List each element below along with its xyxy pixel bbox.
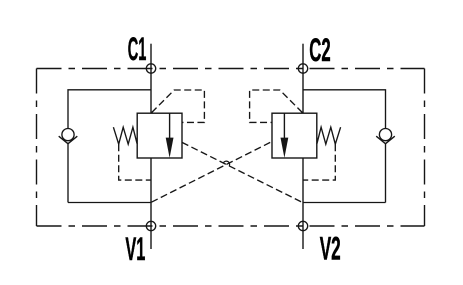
spring pilot drain of CB1 (dashed): [119, 144, 151, 180]
spring pilot drain of CB2 (dashed): [303, 144, 335, 180]
check valve CV1: [59, 129, 78, 144]
port C2: [298, 64, 307, 73]
svg-text:C2: C2: [309, 32, 330, 68]
svg-text:V1: V1: [125, 231, 145, 267]
port V1: [146, 221, 155, 230]
envelope (dashed enclosure boundary): [37, 69, 425, 227]
svg-text:C1: C1: [128, 31, 147, 67]
cross pilot line CB2-to-V1 (dashed diagonal): [151, 142, 270, 202]
check valve bypass loop CV2 wires: [303, 90, 386, 203]
spring of CB2: [317, 127, 341, 144]
counterbalance valve CB2 body: [272, 113, 317, 158]
wire V2 drop: [302, 158, 304, 249]
wire C1 riser: [150, 44, 152, 114]
check valve CV2: [376, 129, 395, 144]
cross pilot line CB1-to-V2 (dashed diagonal): [182, 142, 303, 202]
pilot loop of CB1 (dashed): [152, 90, 205, 122]
wire C2 riser: [302, 44, 304, 114]
spring of CB1: [113, 127, 137, 144]
check valve bypass loop CV1 wires: [68, 90, 151, 203]
valve CB2 flow arrow: [281, 113, 289, 158]
port V2: [298, 221, 307, 230]
crossover hop at pilot intersection: [223, 161, 229, 166]
counterbalance valve CB1 body: [137, 113, 182, 158]
port C1: [146, 64, 155, 73]
wire V1 drop: [150, 158, 152, 249]
pilot loop of CB2 (dashed): [250, 90, 303, 122]
valve CB1 flow arrow: [166, 113, 174, 158]
svg-text:V2: V2: [320, 231, 341, 267]
